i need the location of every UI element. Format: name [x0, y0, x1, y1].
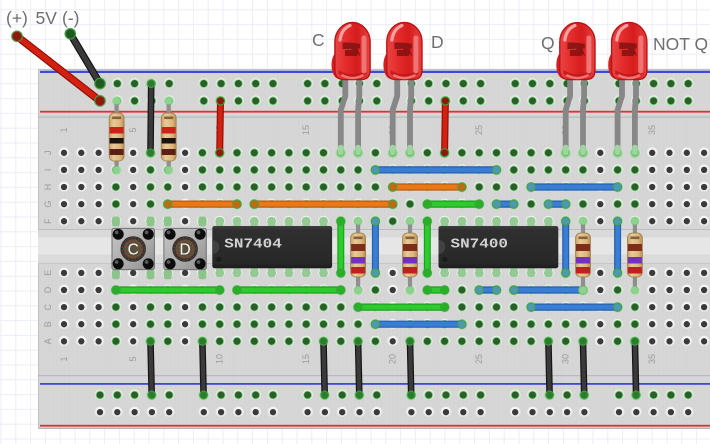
svg-text:5V: 5V [36, 8, 58, 28]
svg-text:25: 25 [474, 354, 484, 364]
svg-text:15: 15 [301, 354, 311, 364]
svg-text:C: C [43, 303, 53, 310]
svg-text:I: I [43, 169, 53, 172]
svg-text:D: D [179, 241, 190, 258]
svg-text:C: C [312, 30, 325, 50]
svg-text:10: 10 [215, 354, 225, 364]
svg-text:F: F [43, 218, 53, 224]
svg-text:B: B [43, 321, 53, 327]
svg-text:Q: Q [541, 33, 555, 53]
svg-text:D: D [431, 32, 444, 52]
svg-text:15: 15 [301, 125, 311, 135]
svg-text:H: H [43, 184, 53, 191]
svg-text:SN7404: SN7404 [224, 238, 281, 253]
svg-text:20: 20 [388, 354, 398, 364]
svg-text:NOT Q: NOT Q [653, 34, 708, 54]
svg-text:A: A [43, 338, 53, 344]
svg-text:(-): (-) [62, 8, 79, 28]
svg-text:E: E [43, 270, 53, 276]
svg-text:35: 35 [647, 354, 657, 364]
svg-text:30: 30 [561, 354, 571, 364]
svg-text:G: G [43, 201, 53, 208]
svg-text:35: 35 [647, 125, 657, 135]
svg-text:5: 5 [128, 356, 138, 361]
svg-text:1: 1 [59, 127, 69, 132]
svg-text:C: C [128, 241, 139, 258]
svg-text:5: 5 [128, 127, 138, 132]
svg-text:D: D [43, 286, 53, 293]
svg-text:SN7400: SN7400 [451, 238, 509, 253]
svg-text:1: 1 [59, 356, 69, 361]
svg-text:J: J [43, 151, 53, 156]
svg-text:(+): (+) [6, 8, 28, 28]
svg-text:25: 25 [474, 125, 484, 135]
